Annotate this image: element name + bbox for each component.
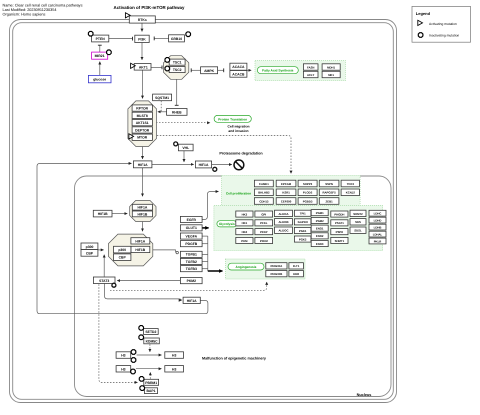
- node VHL: [178, 144, 193, 151]
- svg-text:Activation of PI3K-mTOR pathwa: Activation of PI3K-mTOR pathway: [114, 5, 185, 10]
- svg-text:GLUT1: GLUT1: [186, 226, 197, 230]
- wire H3->H3 row2: [136, 368, 162, 370]
- activating triangle AKT1: [131, 63, 136, 68]
- svg-text:PDGFRA: PDGFRA: [270, 264, 282, 268]
- node PDGFRA: [266, 263, 287, 269]
- svg-text:Last Modified: 20230911230354: Last Modified: 20230911230354: [3, 8, 57, 12]
- mutation octagon TSC1: [165, 58, 170, 63]
- node PKM2: [180, 278, 202, 284]
- svg-text:MTOR: MTOR: [137, 136, 147, 140]
- svg-text:STAT3: STAT3: [99, 279, 109, 283]
- svg-text:KSR1: KSR1: [282, 191, 290, 195]
- wire GLUT1->Glycolysis bold: [202, 227, 208, 229]
- wire PTEN-|PI3K: [109, 38, 133, 40]
- wire HIFcomplex1->HIFcomplex2: [142, 222, 144, 232]
- glycolysis col4: [294, 210, 311, 242]
- svg-text:ZEB1: ZEB1: [326, 199, 334, 203]
- svg-text:PLOD2: PLOD2: [303, 191, 313, 195]
- svg-text:AKT1: AKT1: [139, 65, 148, 69]
- wire AKT1->mTORC1: [142, 70, 144, 98]
- svg-text:Legend: Legend: [416, 11, 431, 16]
- svg-text:GPI: GPI: [261, 212, 266, 216]
- svg-text:Nucleus: Nucleus: [357, 393, 372, 397]
- Fatty Acid Synthesis group: [255, 60, 345, 80]
- node PDGFRB: [266, 271, 287, 277]
- svg-text:CDH13: CDH13: [259, 199, 269, 203]
- svg-text:PFKL: PFKL: [260, 221, 268, 225]
- mutation octagon PTEN: [88, 31, 93, 36]
- svg-text:glucose: glucose: [93, 78, 106, 82]
- wire TGFB3 stub: [202, 268, 208, 270]
- wire VHL->catalysis: [183, 151, 185, 162]
- wire PI3K->AKT1: [141, 43, 143, 60]
- wire HIF1A->HIFcomplex1: [142, 168, 144, 197]
- node STAT3: [93, 277, 115, 284]
- complex TSC1/TSC2: [164, 56, 189, 80]
- svg-text:and invasion: and invasion: [228, 129, 248, 133]
- svg-text:ALDOC: ALDOC: [279, 229, 289, 233]
- svg-text:p300: p300: [118, 248, 126, 252]
- mutation octagon MIR21: [107, 50, 112, 55]
- svg-text:HK2: HK2: [242, 230, 248, 234]
- wire STAT3->PDGFRB dashed: [110, 282, 267, 290]
- svg-text:ALDOA: ALDOA: [279, 212, 289, 216]
- node GLUT1: [180, 225, 202, 231]
- svg-text:CEP290: CEP290: [281, 199, 292, 203]
- activating triangle MTOR: [129, 134, 134, 139]
- header info text: [3, 4, 83, 17]
- svg-text:Fatty Acid Synthesis: Fatty Acid Synthesis: [262, 69, 293, 73]
- node TGFB1: [180, 251, 202, 257]
- svg-text:PTEN: PTEN: [96, 37, 106, 41]
- node FLT1: [289, 263, 304, 269]
- wire PDGFB stub: [202, 243, 208, 245]
- svg-text:H3: H3: [172, 367, 176, 371]
- node HIF1A cytoplasm: [133, 161, 152, 168]
- node PI3K: [135, 35, 149, 42]
- svg-text:ENO2: ENO2: [316, 234, 324, 238]
- svg-text:SHPP3: SHPP3: [303, 182, 313, 186]
- state octagon H3 row2: [131, 369, 136, 374]
- svg-text:p300: p300: [86, 245, 94, 249]
- svg-text:PHGDH: PHGDH: [334, 212, 344, 216]
- svg-text:AKT1S1: AKT1S1: [136, 121, 149, 125]
- svg-text:ACACB: ACACB: [232, 72, 245, 76]
- svg-text:GAPDH: GAPDH: [298, 220, 308, 224]
- svg-text:Malfunction of epigenetic mach: Malfunction of epigenetic machinery: [202, 356, 267, 360]
- node H3 left row1: [116, 352, 131, 359]
- wire STAT3->HIF1A gene: [105, 284, 182, 301]
- wire MIR21-|PTEN: [99, 45, 101, 52]
- svg-text:PKLR: PKLR: [374, 239, 382, 243]
- glycolysis col1: [236, 211, 253, 244]
- proteasome degradation sign: [234, 160, 244, 170]
- node RHEB: [167, 109, 187, 116]
- wire RTKs->PI3K: [141, 23, 143, 31]
- activating triangle RTKs: [125, 13, 130, 18]
- svg-text:RPTOR: RPTOR: [136, 107, 148, 111]
- wire VEGFA stub: [202, 235, 208, 237]
- svg-text:MIR21: MIR21: [95, 54, 105, 58]
- Cell proliferation group: [222, 176, 361, 206]
- node AMPK: [201, 67, 218, 74]
- svg-text:TGFB2: TGFB2: [186, 260, 197, 264]
- svg-text:TSC2: TSC2: [173, 68, 182, 72]
- node TGFB3: [180, 266, 202, 272]
- svg-text:Organism: Homo sapiens: Organism: Homo sapiens: [3, 13, 46, 17]
- wire STAT3->HIFcomplex2: [103, 255, 105, 277]
- svg-text:PKM: PKM: [241, 239, 248, 243]
- svg-text:HIF1A: HIF1A: [199, 163, 209, 167]
- svg-text:TGFB1: TGFB1: [186, 253, 197, 257]
- svg-text:Protein Translation: Protein Translation: [218, 117, 247, 121]
- svg-text:CBP: CBP: [119, 256, 127, 260]
- cell membrane outer: [10, 20, 397, 403]
- node SETD2: [144, 329, 159, 335]
- wire p300/CBP->HIFcomplex2: [98, 249, 104, 251]
- glycolysis col3: [275, 210, 293, 233]
- Protein Translation oval: [214, 115, 251, 122]
- svg-text:PSAT1: PSAT1: [335, 221, 344, 225]
- complex mTORC1: [128, 101, 157, 147]
- wire TSC-|RHEB: [176, 79, 178, 105]
- wire collector vertical: [207, 236, 209, 271]
- legend inactivating octagon: [418, 33, 423, 38]
- mutation octagon TSC2: [165, 66, 170, 71]
- svg-text:SETD2: SETD2: [145, 330, 156, 334]
- svg-text:Cell proliferation: Cell proliferation: [226, 192, 251, 196]
- node RTKs: [129, 16, 155, 23]
- svg-text:ALDOB: ALDOB: [279, 220, 289, 224]
- wire HIFcomplex2->target genes transcription: [153, 250, 176, 253]
- wire ->Angiogenesis bold: [208, 270, 223, 272]
- node ACACB: [230, 71, 247, 78]
- Glycolysis group: [214, 205, 383, 250]
- svg-text:SDSL: SDSL: [354, 229, 362, 233]
- legend box: [412, 6, 471, 42]
- legend activating triangle: [418, 20, 423, 25]
- svg-text:PGM1: PGM1: [316, 211, 324, 215]
- node HIF1A hydroxylated: [195, 161, 211, 168]
- glycolysis col7: [350, 210, 366, 233]
- node AKT1: [134, 64, 151, 71]
- svg-text:SSPN: SSPN: [325, 182, 333, 186]
- svg-text:PFKM: PFKM: [260, 239, 269, 243]
- node H3 right row1: [165, 352, 184, 359]
- cell proliferation genes row3: [254, 198, 339, 205]
- wire AKT1-|TSC: [151, 66, 162, 68]
- svg-text:VEGFA: VEGFA: [186, 234, 198, 238]
- svg-text:LDHB: LDHB: [374, 226, 382, 230]
- wire ACAC->FattyAcidSynthesis: [247, 69, 251, 71]
- svg-text:ACACA: ACACA: [232, 65, 245, 69]
- svg-text:PGBD3: PGBD3: [303, 199, 313, 203]
- svg-text:PGM2: PGM2: [316, 219, 324, 223]
- svg-text:H3: H3: [172, 354, 176, 358]
- svg-text:PGK1: PGK1: [299, 229, 307, 233]
- svg-text:VHL: VHL: [182, 146, 189, 150]
- svg-text:FLT1: FLT1: [293, 264, 300, 268]
- node glucose: [88, 75, 111, 82]
- Angiogenesis group: [226, 259, 306, 279]
- cell membrane inner: [13, 23, 394, 400]
- wire SQSTM1 dashed anchor: [160, 101, 162, 111]
- svg-text:RTKs: RTKs: [138, 18, 147, 22]
- svg-text:SHMT1: SHMT1: [335, 239, 345, 243]
- svg-text:HK3: HK3: [242, 212, 248, 216]
- svg-text:Glycolysis: Glycolysis: [219, 222, 235, 226]
- node ACACA: [230, 63, 247, 70]
- svg-text:TSC1: TSC1: [173, 61, 182, 65]
- svg-text:LDHD: LDHD: [374, 219, 382, 223]
- wire mTORC1->CellProliferation dashed: [154, 136, 291, 174]
- svg-text:PGK2: PGK2: [299, 237, 307, 241]
- node H3 right row2: [165, 366, 184, 372]
- svg-text:Angiogenesis: Angiogenesis: [236, 265, 257, 269]
- wire KDM5C->H3 catalysis dashed: [149, 344, 151, 349]
- node VEGFA: [180, 233, 202, 239]
- node EGFR: [180, 216, 202, 222]
- mutation octagon KDM5C: [139, 335, 144, 340]
- svg-text:SHMT2: SHMT2: [353, 212, 363, 216]
- svg-text:ACLY: ACLY: [307, 73, 314, 77]
- wire STAT3->PBRM1 dashed: [99, 284, 138, 382]
- svg-text:Inactivating mutation: Inactivating mutation: [429, 33, 459, 37]
- svg-text:LDHC: LDHC: [374, 212, 382, 216]
- node SQSTM1: [153, 94, 172, 101]
- wire H3->H3 row1: [137, 354, 162, 356]
- nucleus border: [75, 176, 392, 397]
- svg-text:CBP: CBP: [86, 251, 94, 255]
- svg-text:PDGFRB: PDGFRB: [270, 272, 282, 276]
- svg-text:PKM2: PKM2: [187, 279, 197, 283]
- mutation octagon GRB10: [186, 32, 191, 37]
- svg-text:BHLHB2: BHLHB2: [258, 191, 270, 195]
- node CBP: [81, 250, 98, 257]
- node HIF1A gene: [183, 297, 200, 303]
- node MDH1: [322, 64, 340, 70]
- svg-text:TCE3: TCE3: [347, 182, 355, 186]
- node KDR: [289, 271, 304, 277]
- svg-text:FASN: FASN: [307, 65, 314, 69]
- svg-text:HIF1A: HIF1A: [187, 299, 197, 303]
- svg-text:ENO1: ENO1: [316, 227, 324, 231]
- wire HIF1A gene loop->HIF1A cyto: [37, 163, 208, 313]
- wire TGFB2 stub: [202, 261, 208, 263]
- glycolysis col8 LDH: [369, 210, 386, 244]
- node p300: [81, 243, 98, 250]
- svg-text:RHEB: RHEB: [172, 110, 182, 114]
- wire mTORC1->ProteinTranslation dashed: [156, 122, 210, 124]
- svg-text:HIF1A: HIF1A: [138, 206, 148, 210]
- svg-text:EGFR: EGFR: [187, 218, 197, 222]
- wire glucose->MIR21: [99, 62, 101, 76]
- svg-text:MLST8: MLST8: [137, 114, 148, 118]
- node FASN: [303, 64, 318, 70]
- svg-text:Proteasome degradation: Proteasome degradation: [219, 151, 263, 155]
- wire AMPK-|ACAC: [218, 69, 224, 71]
- node HIF1B nucleus: [93, 210, 112, 217]
- svg-text:KCNJ2: KCNJ2: [346, 191, 356, 195]
- svg-text:AMPK: AMPK: [204, 69, 215, 73]
- glycolysis col6: [331, 211, 348, 244]
- svg-text:EPCAM: EPCAM: [281, 182, 292, 186]
- svg-text:KDM5C: KDM5C: [146, 339, 159, 343]
- node KDM5C: [144, 338, 160, 344]
- svg-text:PDGFB: PDGFB: [185, 242, 197, 246]
- svg-text:LDHAL: LDHAL: [373, 233, 383, 237]
- svg-text:HIF1A: HIF1A: [138, 163, 148, 167]
- svg-text:SQSTM1: SQSTM1: [155, 96, 169, 100]
- svg-text:HIF1A: HIF1A: [135, 239, 145, 243]
- glycolysis col5: [311, 210, 328, 247]
- svg-text:RAPGEF5: RAPGEF5: [322, 191, 336, 195]
- svg-text:HIF1B: HIF1B: [98, 212, 108, 216]
- svg-text:PSPH: PSPH: [336, 230, 344, 234]
- complex HIF1A/HIF1B nuclear: [130, 201, 156, 222]
- wire HIF1A->HIF1A-OH: [152, 163, 194, 165]
- svg-text:HIF1B: HIF1B: [135, 248, 145, 252]
- svg-text:ME1: ME1: [328, 73, 334, 77]
- wire HIF1B->HIFcomplex1: [112, 213, 127, 215]
- svg-text:HIF1B: HIF1B: [138, 212, 148, 216]
- svg-text:Name: Clear cell renal cell ca: Name: Clear cell renal cell carcinoma pa…: [3, 4, 83, 8]
- svg-text:PBRM1: PBRM1: [145, 381, 157, 385]
- node ACLY: [303, 71, 318, 77]
- wire EGFR->CellProliferation: [202, 192, 218, 220]
- node ME1: [322, 71, 340, 77]
- state circle VHL: [174, 142, 178, 146]
- node MIR21: [92, 52, 108, 59]
- wire PBRM1->H3 row2 catalysis dashed: [149, 376, 151, 379]
- node BAP1: [145, 388, 158, 394]
- svg-text:SDS: SDS: [355, 220, 361, 224]
- svg-text:BAP1: BAP1: [146, 389, 155, 393]
- glycolysis col2: [255, 211, 273, 244]
- wire AMPK-|TSC: [191, 69, 200, 71]
- mutation octagon PBRM1: [139, 377, 144, 382]
- svg-text:CAMK1: CAMK1: [259, 182, 269, 186]
- svg-text:HK1: HK1: [242, 221, 248, 225]
- state circle HIF1A-OH: [213, 167, 217, 171]
- node PTEN: [92, 35, 109, 42]
- node TGFB2: [180, 258, 202, 264]
- svg-text:DEPTOR: DEPTOR: [135, 128, 150, 132]
- svg-text:H3: H3: [121, 354, 125, 358]
- mutation octagon BAP1: [140, 386, 145, 391]
- state circle STAT3: [112, 283, 116, 287]
- wire mTORC1->HIF1A: [142, 147, 144, 159]
- svg-text:PFKP: PFKP: [260, 230, 268, 234]
- svg-text:TGFB3: TGFB3: [186, 267, 197, 271]
- cell proliferation genes row1: [254, 180, 359, 187]
- wire HIF1A-OH->proteasome: [212, 164, 232, 166]
- state octagon H3 K4: [131, 350, 136, 355]
- node PBRM1: [144, 379, 159, 385]
- wire GRB10-|PI3K: [154, 37, 168, 39]
- svg-text:TPI1: TPI1: [300, 212, 306, 216]
- wire TGFB1 stub: [202, 253, 208, 255]
- wire RHEB->mTORC1: [158, 111, 167, 113]
- mutation octagon SETD2: [139, 326, 144, 331]
- complex HIF/p300/CBP: [108, 234, 152, 266]
- wire PKM2->STAT3: [117, 280, 180, 282]
- svg-text:MDH1: MDH1: [327, 65, 335, 69]
- svg-text:PI3K: PI3K: [138, 37, 146, 41]
- svg-text:Activating mutation: Activating mutation: [429, 22, 457, 26]
- node PDGFB: [180, 241, 202, 247]
- node H3 left row2: [116, 366, 131, 372]
- svg-text:GRB10: GRB10: [171, 37, 182, 41]
- state octagon H3 K36: [131, 358, 136, 363]
- svg-text:H3: H3: [121, 367, 125, 371]
- svg-text:KDR: KDR: [293, 272, 299, 276]
- node GRB10: [169, 35, 185, 42]
- svg-text:ENO3: ENO3: [316, 242, 324, 246]
- cell proliferation genes row2: [254, 189, 359, 196]
